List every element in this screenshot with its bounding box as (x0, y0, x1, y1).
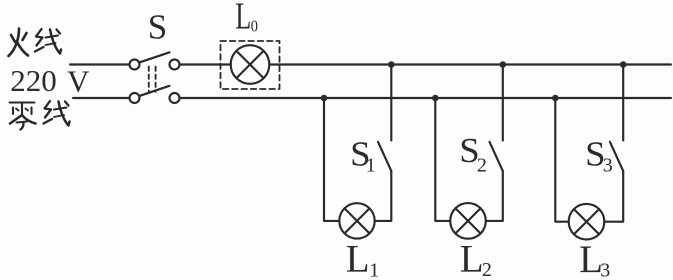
wire switch S3 to lamp L3 (604, 171, 623, 222)
wire live bus from L0 to right edge (269, 63, 671, 65)
wire branch3 neutral drop to lamp L3 (555, 98, 568, 222)
wire neutral(零线) left lead (73, 97, 129, 99)
svg-text:0: 0 (251, 17, 258, 35)
wire branch3 live drop to switch S3 (622, 65, 624, 141)
label L2 (460, 237, 492, 280)
switch S pole1 blade (140, 52, 170, 62)
svg-text:1: 1 (366, 155, 376, 177)
label 线 (live wire text char2) (35, 29, 61, 54)
lamp L1 (339, 203, 374, 238)
node live/branch1 junction (388, 61, 395, 68)
wire switch S2 to lamp L2 (486, 171, 503, 221)
switch S1 blade (378, 142, 391, 171)
switch S3 blade (610, 142, 623, 171)
svg-text:3: 3 (603, 155, 613, 177)
svg-text:1: 1 (369, 259, 379, 280)
label S1 (350, 134, 376, 176)
svg-text:2: 2 (482, 259, 492, 280)
node live/branch3 junction (620, 61, 627, 68)
svg-text:2: 2 (477, 155, 487, 177)
switch S pole2 blade (140, 86, 170, 96)
lamp L2 (450, 203, 486, 239)
svg-text:V: V (67, 64, 90, 99)
wire branch1 live drop to switch S1 (390, 65, 392, 141)
switch S pole2 right terminal (170, 93, 180, 103)
lamp L0 (231, 45, 270, 84)
svg-text:L: L (460, 237, 484, 280)
svg-text:3: 3 (600, 260, 610, 280)
label 线 (neutral wire text char2) (44, 101, 70, 126)
label S2 (459, 131, 487, 177)
label L0 (pilot lamp) (235, 0, 258, 38)
label S (main switch) (148, 7, 167, 46)
label S3 (585, 134, 613, 177)
wire branch1 neutral drop to lamp L1 (324, 98, 339, 221)
node neutral/branch3 junction (552, 95, 559, 102)
svg-text:S: S (148, 7, 167, 46)
wire branch2 neutral drop to lamp L2 (435, 98, 450, 221)
switch S pole1 right terminal (170, 60, 180, 70)
label 火 (live wire text char1) (9, 29, 29, 57)
label L3 (579, 238, 610, 280)
switch S pole1 left terminal (130, 60, 140, 70)
switch S pole2 left terminal (130, 93, 140, 103)
lamp L0 dashed enclosure (221, 41, 280, 89)
label L1 (346, 238, 380, 280)
wire switch S1 to lamp L1 (375, 171, 392, 221)
svg-text:L: L (346, 238, 370, 280)
node live/branch2 junction (500, 61, 507, 68)
label 零 (neutral wire text char1) (10, 103, 36, 130)
label 220 V (mains voltage) (10, 63, 90, 99)
wire branch2 live drop to switch S2 (502, 65, 504, 141)
lamp L3 (569, 204, 605, 240)
wire live from switch to lamp L0 (180, 63, 231, 65)
switch S gang linkage (dashed) (149, 67, 156, 93)
node neutral/branch1 junction (321, 95, 328, 102)
svg-text:220: 220 (10, 63, 57, 98)
wire live(火线) left lead (70, 63, 129, 65)
svg-text:L: L (235, 0, 251, 38)
node neutral/branch2 junction (432, 95, 439, 102)
wire neutral bus from switch to right edge (180, 97, 671, 99)
switch S2 blade (490, 142, 503, 171)
